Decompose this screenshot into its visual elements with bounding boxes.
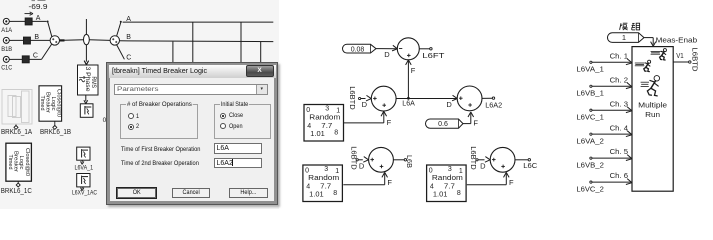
- runner icon small 2: [651, 49, 667, 60]
- input node L6VC_2: [590, 181, 632, 183]
- summing junction U1 (L6FT): [397, 38, 419, 60]
- arrowhead F input U4: [382, 172, 388, 177]
- svg-text:4: 4: [306, 183, 310, 190]
- arrowhead Ch. 2: [626, 83, 632, 89]
- svg-text:C1C: C1C: [1, 65, 12, 72]
- label B: [34, 34, 39, 41]
- svg-text:C: C: [33, 52, 38, 59]
- svg-text:-69.9: -69.9: [29, 4, 48, 11]
- svg-text:BRKL6_1B: BRKL6_1B: [40, 129, 71, 136]
- label Ch. 1: [610, 53, 629, 60]
- wire V1 output: [673, 61, 688, 63]
- wire D to U5: [478, 159, 484, 161]
- svg-text:Breaker: Breaker: [13, 151, 19, 172]
- input node L6VB_2: [590, 157, 632, 159]
- svg-text:3 Phase: 3 Phase: [84, 67, 91, 93]
- meter readout -69.9: [29, 4, 48, 11]
- svg-text:Timed: Timed: [7, 155, 13, 170]
- breaker BRK B (closed): [24, 37, 31, 44]
- meter/plot block 1: [80, 104, 93, 118]
- wire phase A left: [13, 20, 47, 22]
- svg-text:1.01: 1.01: [433, 192, 448, 199]
- terminal A1: [3, 18, 12, 24]
- svg-text:L6B: L6B: [405, 155, 414, 168]
- constant 0.08: [343, 44, 377, 53]
- label C: [33, 52, 38, 59]
- group box # of Breaker Operations: [120, 104, 198, 140]
- svg-text:Multiple: Multiple: [638, 101, 667, 110]
- wire RMS to meter: [84, 95, 88, 104]
- 3-phase merge node left: [50, 36, 59, 45]
- svg-text:L6A2: L6A2: [485, 100, 502, 109]
- signal label L6VC_2: [576, 187, 604, 194]
- label L6VA_1 left: [75, 165, 94, 172]
- label BRKL6_1C: [1, 188, 32, 195]
- label L6B (rotated): [405, 155, 414, 168]
- label Ch. 3: [610, 101, 629, 108]
- partially covered label 0: [103, 117, 107, 124]
- svg-text:Ch. 6: Ch. 6: [610, 173, 629, 180]
- wire phase B left: [13, 39, 51, 41]
- title bar: [109, 65, 276, 79]
- Cancel button: [172, 188, 209, 199]
- svg-text:3: 3: [324, 166, 328, 173]
- timed breaker logic BRKL6_1B: [39, 86, 62, 121]
- svg-text:Random: Random: [308, 175, 339, 182]
- svg-text:L6VC_1: L6VC_1: [576, 115, 604, 122]
- svg-text:BRKL6_1A: BRKL6_1A: [1, 129, 32, 136]
- meter/plot block 2: [77, 147, 90, 160]
- svg-text:D: D: [362, 100, 368, 109]
- node dot A-right: [120, 21, 122, 23]
- svg-text:C: C: [126, 54, 131, 61]
- radio Open: [220, 123, 226, 129]
- wire tap vertical 2 from A: [192, 22, 194, 64]
- label L6BTD at V1 (rotated): [690, 48, 699, 73]
- arrowhead Meas-Enab input: [651, 42, 656, 47]
- arrowhead Ch. 5: [626, 155, 632, 161]
- arrowhead Ch. 1: [626, 59, 632, 65]
- connection diamond BRKL6_1A: [14, 125, 18, 130]
- parameters combo: [114, 84, 268, 95]
- CT vertical lead: [84, 19, 88, 65]
- label Meas-Enab: [656, 36, 698, 45]
- arrowhead F input U3: [468, 112, 474, 117]
- svg-text:8: 8: [457, 190, 461, 197]
- svg-text:D: D: [446, 100, 452, 109]
- label C1C: [1, 65, 12, 72]
- wire D to U2: [361, 98, 366, 100]
- wire F feedback up to U1: [407, 61, 409, 98]
- current transformer ellipse: [84, 34, 90, 44]
- label C right: [126, 54, 131, 61]
- label L6XV_1AC: [72, 190, 97, 197]
- group box Initial State: [214, 104, 271, 140]
- svg-text:0: 0: [306, 107, 310, 114]
- svg-text:V1: V1: [676, 53, 684, 60]
- label A1A: [1, 27, 12, 34]
- svg-text:Ch. 5: Ch. 5: [610, 149, 629, 156]
- radio 2 selected: [128, 124, 134, 130]
- wire diagonal C to bus node: [42, 44, 53, 60]
- breaker BRK A (closed): [25, 18, 32, 25]
- arrowhead F input U1: [406, 60, 412, 65]
- output node L6FT: [430, 48, 432, 50]
- svg-text:B: B: [126, 34, 131, 41]
- svg-text:BRKL6_1C: BRKL6_1C: [1, 188, 32, 195]
- radio Close selected: [220, 113, 226, 119]
- field L6A2: [214, 158, 262, 169]
- junction dot on L6A wire: [407, 97, 410, 100]
- label Multiple Run: [638, 101, 667, 119]
- svg-text:0.08: 0.08: [351, 46, 365, 53]
- wire U3 output: [482, 97, 492, 99]
- wire diagonal A to bus node: [48, 22, 52, 38]
- wire tap vertical 3 from A: [240, 22, 242, 64]
- input node D U2: [359, 97, 361, 99]
- clipped text at top edge: [32, 0, 46, 1]
- 3 Phase RMS block: [78, 65, 99, 95]
- svg-text:7.7: 7.7: [321, 123, 332, 130]
- summing junction U3 (L6A2): [457, 86, 482, 111]
- input node L6VC_1: [590, 109, 632, 111]
- signal label L6VA_2: [576, 139, 604, 146]
- wire phase B right: [120, 40, 274, 43]
- node dot A-left: [47, 21, 49, 23]
- input node L6VB_1: [590, 85, 632, 87]
- svg-text:8: 8: [334, 129, 338, 136]
- label L6BTD at U4: [349, 146, 358, 170]
- label F at U5: [509, 178, 514, 187]
- svg-text:Logic: Logic: [50, 97, 56, 111]
- wire D to U4: [358, 159, 363, 161]
- arrowhead Ch. 4: [626, 131, 632, 137]
- wire 1 to Multiple Run: [644, 38, 653, 45]
- label L6A: [402, 98, 415, 107]
- wire CT to node: [89, 39, 110, 42]
- svg-text:L6BTD: L6BTD: [349, 146, 358, 170]
- label Ch. 2: [610, 77, 629, 84]
- wire U2 to U3 (L6A): [396, 98, 457, 100]
- caption 使能 (enable): [620, 23, 640, 30]
- meter/plot block 3: [77, 174, 90, 187]
- label L6C: [523, 161, 538, 170]
- svg-text:RMS: RMS: [90, 77, 97, 89]
- wire U1 output: [419, 48, 429, 50]
- timed breaker logic BRKL6_1C: [6, 143, 32, 181]
- svg-text:Timed: Timed: [39, 96, 45, 111]
- label L6BTD at U2: [348, 86, 357, 110]
- terminal C1: [3, 56, 12, 62]
- svg-text:7.7: 7.7: [444, 183, 455, 190]
- connection diamond BRKL6_1B: [53, 121, 57, 129]
- radio 1: [128, 113, 134, 119]
- label B right: [126, 34, 131, 41]
- arrowhead D input U5: [485, 157, 490, 163]
- svg-text:L6C: L6C: [523, 161, 538, 170]
- arrowhead D input U2: [366, 95, 371, 101]
- svg-text:D: D: [384, 50, 390, 59]
- label Ch. 4: [610, 125, 629, 132]
- arrowhead D input U3: [452, 95, 457, 101]
- svg-text:L6XV_1AC: L6XV_1AC: [72, 190, 97, 197]
- signal label L6VA_1: [576, 67, 604, 74]
- label L6FT: [422, 51, 445, 60]
- svg-text:A: A: [36, 15, 41, 22]
- svg-text:L6A: L6A: [402, 98, 415, 107]
- svg-text:1.01: 1.01: [310, 131, 325, 138]
- svg-text:B1B: B1B: [1, 46, 12, 53]
- random timer R3: [427, 165, 467, 202]
- label L6BTD at U5: [469, 146, 478, 170]
- label D at U4: [359, 161, 365, 170]
- wire node to CT: [65, 39, 84, 42]
- arrowhead Ch. 6: [626, 179, 632, 185]
- label F at U1: [411, 66, 416, 75]
- svg-text:3: 3: [325, 106, 329, 113]
- svg-text:D: D: [480, 161, 486, 170]
- wire tap vertical 1 from B: [172, 42, 174, 64]
- arrowhead F input U5: [504, 172, 510, 177]
- wire U5 output: [515, 159, 528, 161]
- breaker BRK C (closed): [22, 56, 29, 63]
- svg-text:Ch. 2: Ch. 2: [610, 77, 629, 84]
- label BRKL6_1A: [1, 129, 32, 136]
- label D at U2: [362, 100, 368, 109]
- svg-text:L6VB_2: L6VB_2: [576, 163, 604, 170]
- svg-text:8: 8: [333, 190, 337, 197]
- svg-text:1: 1: [622, 33, 626, 42]
- input node L6VA_1: [590, 61, 632, 63]
- label B1B: [1, 46, 12, 53]
- label BRKL6_1B: [40, 129, 71, 136]
- label Ch. 5: [610, 149, 629, 156]
- svg-text:F: F: [387, 118, 392, 127]
- summing junction U2 (L6A): [371, 86, 396, 111]
- svg-text:L6VA_2: L6VA_2: [576, 139, 604, 146]
- output node L6A2: [492, 97, 494, 99]
- wire R2 to U4 F: [343, 174, 384, 185]
- label L6A2: [485, 100, 502, 109]
- svg-text:7.7: 7.7: [320, 183, 331, 190]
- svg-text:A1A: A1A: [1, 27, 12, 34]
- wire diagonal node to A right: [117, 22, 121, 36]
- signal label L6VB_1: [576, 91, 604, 98]
- runner icon small 1: [635, 60, 651, 71]
- label A: [36, 15, 41, 22]
- summing junction U4 (L6B): [369, 147, 394, 172]
- input node D U5: [476, 159, 478, 161]
- output node V1: [689, 61, 691, 63]
- output node L6B: [404, 159, 406, 161]
- svg-text:F: F: [387, 178, 392, 187]
- signal label L6VC_1: [576, 115, 604, 122]
- output node L6C: [528, 159, 530, 161]
- wire meter3 to label: [81, 187, 84, 191]
- wire tap vertical 4 from B: [260, 42, 262, 64]
- label D at U5: [480, 161, 486, 170]
- svg-text:1.01: 1.01: [309, 192, 324, 199]
- wire phase C left: [13, 58, 42, 60]
- svg-text:4: 4: [307, 123, 311, 130]
- svg-text:D: D: [359, 161, 365, 170]
- svg-text:Logic: Logic: [18, 156, 24, 170]
- label D at U1: [384, 50, 390, 59]
- runner icon large: [641, 76, 660, 96]
- wire R1 to U2 F: [344, 112, 384, 123]
- wire 0.6 to U3: [463, 113, 471, 123]
- svg-text:B: B: [34, 34, 39, 41]
- svg-text:Run: Run: [645, 110, 660, 119]
- OK button: [116, 187, 158, 200]
- svg-text:0: 0: [305, 167, 309, 174]
- svg-text:L6VA_1: L6VA_1: [576, 67, 604, 74]
- svg-text:L6VC_2: L6VC_2: [576, 187, 604, 194]
- close button: [246, 65, 274, 77]
- wire R3 to U5 F: [467, 174, 507, 185]
- svg-text:L6BTD: L6BTD: [469, 146, 478, 170]
- svg-text:Closed@t0: Closed@t0: [55, 89, 61, 117]
- multiple run block body: [632, 47, 673, 192]
- constant 1 (Meas-Enab): [608, 33, 645, 43]
- svg-text:F: F: [473, 118, 478, 127]
- label F at U3: [473, 118, 478, 127]
- svg-text:Breaker: Breaker: [45, 92, 51, 113]
- arrowhead Ch. 3: [626, 107, 632, 113]
- svg-text:F: F: [411, 66, 416, 75]
- svg-text:3: 3: [448, 166, 452, 173]
- input node L6VA_2: [590, 133, 632, 135]
- summing junction U5 (L6C): [490, 147, 515, 172]
- arrowhead D input U4: [363, 157, 368, 163]
- svg-text:4: 4: [430, 183, 434, 190]
- constant 0.6: [426, 119, 463, 128]
- 3-phase split node right: [110, 36, 119, 45]
- dialog [tbreakn] Timed Breaker Logic: [106, 62, 278, 205]
- wire phase A right: [123, 21, 274, 23]
- faded breaker component outline: [2, 90, 32, 125]
- random timer R1: [304, 105, 344, 142]
- terminal B1: [3, 37, 12, 43]
- arrowhead F input U2: [381, 111, 387, 116]
- svg-text:L6VB_1: L6VB_1: [576, 91, 604, 98]
- connection diamond BRKL6_1C: [16, 181, 20, 187]
- label F at U4: [387, 178, 392, 187]
- svg-text:L6FT: L6FT: [422, 51, 445, 60]
- label F at U2: [387, 118, 392, 127]
- wire diagonal node to C right: [117, 45, 125, 60]
- label Time of 2nd Breaker Operation: [121, 160, 199, 167]
- svg-text:0: 0: [429, 167, 433, 174]
- arrow above breaker A: [25, 12, 34, 15]
- arrowhead into RMS box: [84, 61, 88, 65]
- random timer R2: [303, 165, 343, 202]
- svg-text:L6BTD: L6BTD: [690, 48, 699, 73]
- label Ch. 6: [610, 173, 629, 180]
- svg-text:Ch. 4: Ch. 4: [610, 125, 629, 132]
- input node D U4: [356, 159, 358, 161]
- svg-text:L6VA_1: L6VA_1: [75, 165, 94, 172]
- svg-text:0.6: 0.6: [438, 121, 448, 128]
- label D at U3: [446, 100, 452, 109]
- svg-text:Ch. 1: Ch. 1: [610, 53, 629, 60]
- wire U4 output: [393, 159, 404, 161]
- thick stub: [60, 39, 65, 41]
- wire 0.08 to summer U1: [376, 48, 397, 50]
- Help button: [229, 188, 268, 199]
- svg-text:Meas-Enab: Meas-Enab: [656, 36, 698, 45]
- svg-text:F: F: [509, 178, 514, 187]
- field L6A: [214, 143, 262, 154]
- svg-text:Ch. 3: Ch. 3: [610, 101, 629, 108]
- svg-text:Closed@t0: Closed@t0: [24, 148, 30, 176]
- svg-text:Random: Random: [309, 115, 340, 122]
- label V1: [676, 53, 684, 60]
- wire meter2 to label: [81, 160, 84, 164]
- signal label L6VB_2: [576, 163, 604, 170]
- label Time of First Breaker Operation: [121, 146, 200, 153]
- svg-text:L6BTD: L6BTD: [348, 86, 357, 110]
- arrowhead D input U1: [392, 45, 397, 51]
- svg-text:Random: Random: [432, 175, 463, 182]
- label A right: [126, 16, 131, 23]
